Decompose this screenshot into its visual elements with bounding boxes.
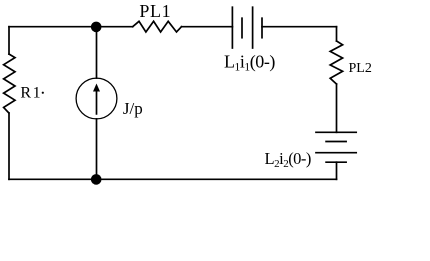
- svg-text:PL1: PL1: [139, 1, 171, 21]
- wire node B to bottom-left corner: [9, 178, 97, 180]
- svg-text:L2i2(0-): L2i2(0-): [265, 149, 311, 170]
- voltage source L2i2(0-) battery plates: [316, 132, 356, 162]
- svg-text:J/p: J/p: [123, 99, 143, 118]
- wire PL2 to source L2i2: [336, 84, 338, 132]
- svg-text:L1i1(0-): L1i1(0-): [224, 51, 275, 73]
- wire left rail lower (corner up to R1): [8, 113, 10, 179]
- resistor R1: [4, 54, 15, 113]
- resistor PL2: [330, 41, 342, 84]
- current source arrow: [93, 84, 100, 114]
- wire node A to PL1: [97, 26, 133, 28]
- stray dot after R1: [42, 92, 44, 94]
- wire top-left (corner to node A): [9, 26, 97, 28]
- resistor PL1: [133, 21, 182, 32]
- wire L1i1 to top-right corner: [262, 26, 337, 28]
- wire top-right corner down to PL2: [336, 27, 338, 41]
- wire node A down to current source: [96, 27, 98, 78]
- node A junction dot: [91, 22, 102, 33]
- voltage source L1i1(0-) battery plates: [232, 7, 262, 48]
- current source J/p circle: [76, 78, 117, 119]
- svg-text:PL2: PL2: [349, 61, 372, 76]
- wire current source down to node B: [96, 119, 98, 179]
- wire bottom (right corner to node B): [97, 178, 337, 180]
- wire PL1 to source L1i1: [182, 26, 233, 28]
- svg-text:R1: R1: [20, 84, 40, 101]
- node B junction dot: [91, 174, 102, 185]
- wire left rail upper (R1 up to corner): [8, 27, 10, 54]
- wire L2i2 to bottom-right corner: [336, 162, 338, 179]
